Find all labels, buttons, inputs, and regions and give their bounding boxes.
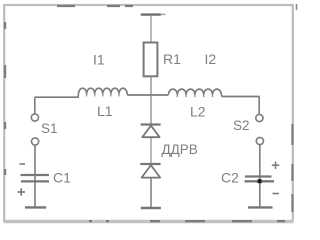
svg-text:I1: I1: [93, 52, 105, 68]
junction dot on C2 bottom plate: [258, 179, 262, 183]
capacitor C1 bottom plate: [21, 180, 49, 182]
wire: D2 to ground: [150, 178, 152, 207]
diode D1 triangle: [142, 126, 159, 138]
svg-text:C2: C2: [221, 170, 239, 186]
plus sign (C1 bottom polarity): [18, 188, 26, 195]
spark gap S2 upper electrode: [256, 114, 263, 121]
wire: bus between L1 and L2: [127, 94, 169, 95]
svg-text:I2: I2: [205, 51, 217, 67]
svg-text:R1: R1: [163, 51, 181, 67]
capacitor C1 top plate: [21, 174, 50, 176]
diode D2 triangle: [142, 165, 161, 178]
minus sign (C2 bottom polarity): [273, 193, 280, 195]
wire: left branch down to S1: [34, 97, 36, 114]
ground (right): [248, 206, 273, 208]
wire: R1 bottom to diode branch (crosses bus): [150, 76, 152, 123]
ground (center): [141, 207, 161, 209]
spark gap S2 lower electrode: [256, 137, 263, 144]
capacitor C2 top plate: [245, 175, 272, 177]
spark gap S1 upper electrode: [31, 114, 38, 121]
svg-text:L1: L1: [97, 103, 113, 119]
wire: S1 to C1 and through to ground: [34, 145, 36, 206]
capacitor C2 bottom plate: [245, 180, 275, 182]
resistor R1: [144, 43, 158, 77]
svg-text:C1: C1: [53, 170, 71, 186]
ground (left): [25, 206, 46, 208]
plus sign (C2 top polarity): [272, 162, 279, 170]
diode D2 cathode bar: [140, 163, 160, 165]
wire: right branch down to S2: [258, 97, 260, 114]
spark gap S1 lower electrode: [31, 138, 38, 145]
svg-text:S1: S1: [41, 121, 58, 136]
inductor L1: [79, 88, 128, 94]
diode D1 cathode bar: [141, 123, 161, 125]
svg-text:L2: L2: [190, 104, 206, 120]
wire: between diodes: [150, 138, 152, 164]
svg-text:S2: S2: [233, 118, 250, 133]
minus sign (C1 top polarity): [20, 163, 26, 165]
wire: left bus segment: [35, 94, 79, 97]
wire: right bus segment: [221, 95, 259, 99]
wire: S2 to C2 and through to ground: [259, 145, 261, 207]
wire: terminal to R1: [150, 16, 152, 43]
inductor L2: [169, 89, 222, 94]
svg-text:ДДРВ: ДДРВ: [162, 142, 198, 157]
supply terminal bar (top): [141, 13, 166, 16]
